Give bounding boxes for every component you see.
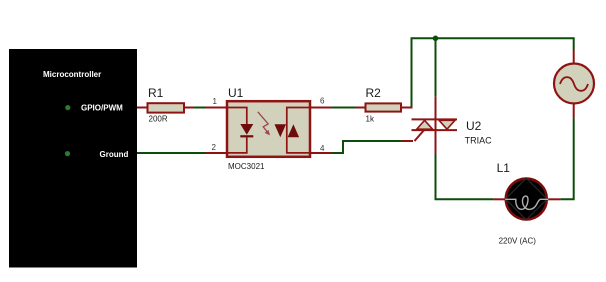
svg-text:U2: U2 bbox=[466, 119, 482, 133]
svg-text:4: 4 bbox=[320, 144, 325, 153]
svg-text:R2: R2 bbox=[366, 86, 382, 100]
wire U1 pin 6 to R2 bbox=[310, 107, 366, 109]
svg-text:U1: U1 bbox=[228, 86, 244, 100]
svg-text:MOC3021: MOC3021 bbox=[228, 162, 265, 171]
svg-text:R1: R1 bbox=[148, 86, 164, 100]
U1 internal triac branch bbox=[275, 108, 311, 153]
svg-text:Ground: Ground bbox=[100, 150, 129, 159]
svg-text:L1: L1 bbox=[497, 161, 511, 175]
pin GPIO/PWM bbox=[65, 104, 123, 113]
triac U2 vertical lead bbox=[435, 97, 437, 154]
microcontroller block bbox=[9, 49, 137, 268]
AC source pin stub bottom bbox=[573, 104, 575, 118]
wire Ground to U1 pin 2 bbox=[137, 152, 227, 154]
svg-text:GPIO/PWM: GPIO/PWM bbox=[81, 104, 123, 113]
wire AC source down to lamp bbox=[560, 118, 573, 199]
U1 light arrow bbox=[258, 112, 270, 136]
AC source pin stub top bbox=[573, 50, 575, 63]
pin Ground bbox=[65, 150, 129, 159]
AC voltage source bbox=[554, 64, 594, 104]
transistor U2 TRIAC bbox=[412, 119, 493, 145]
lamp right pin stub bbox=[548, 198, 560, 200]
resistor R1 bbox=[148, 86, 185, 123]
wire U1 pin 4 to triac gate bbox=[310, 141, 413, 153]
node junction dot bbox=[433, 36, 439, 42]
wire node up-left vertical from R2 bbox=[412, 38, 574, 106]
svg-text:2: 2 bbox=[212, 143, 217, 152]
svg-text:6: 6 bbox=[320, 97, 325, 106]
wire junction down to triac bbox=[435, 38, 437, 96]
svg-text:Microcontroller: Microcontroller bbox=[43, 70, 101, 79]
wire triac down to lamp corner bbox=[436, 154, 494, 199]
svg-text:TRIAC: TRIAC bbox=[465, 135, 493, 145]
svg-text:1k: 1k bbox=[366, 115, 375, 124]
wire R1 to U1 pin 1 bbox=[184, 107, 227, 109]
svg-text:220V (AC): 220V (AC) bbox=[499, 236, 537, 245]
lamp left pin stub bbox=[494, 198, 505, 200]
resistor R2 bbox=[366, 86, 402, 124]
op-amp U1 optocoupler MOC3021 body bbox=[227, 86, 310, 171]
wire R2 to node bbox=[401, 107, 413, 109]
svg-text:200R: 200R bbox=[149, 114, 168, 123]
U1 internal LED branch bbox=[228, 108, 253, 153]
svg-text:1: 1 bbox=[213, 97, 218, 106]
wire GPIO/PWM to R1 (pin stub) bbox=[137, 107, 148, 109]
lamp L1 bbox=[497, 161, 549, 245]
